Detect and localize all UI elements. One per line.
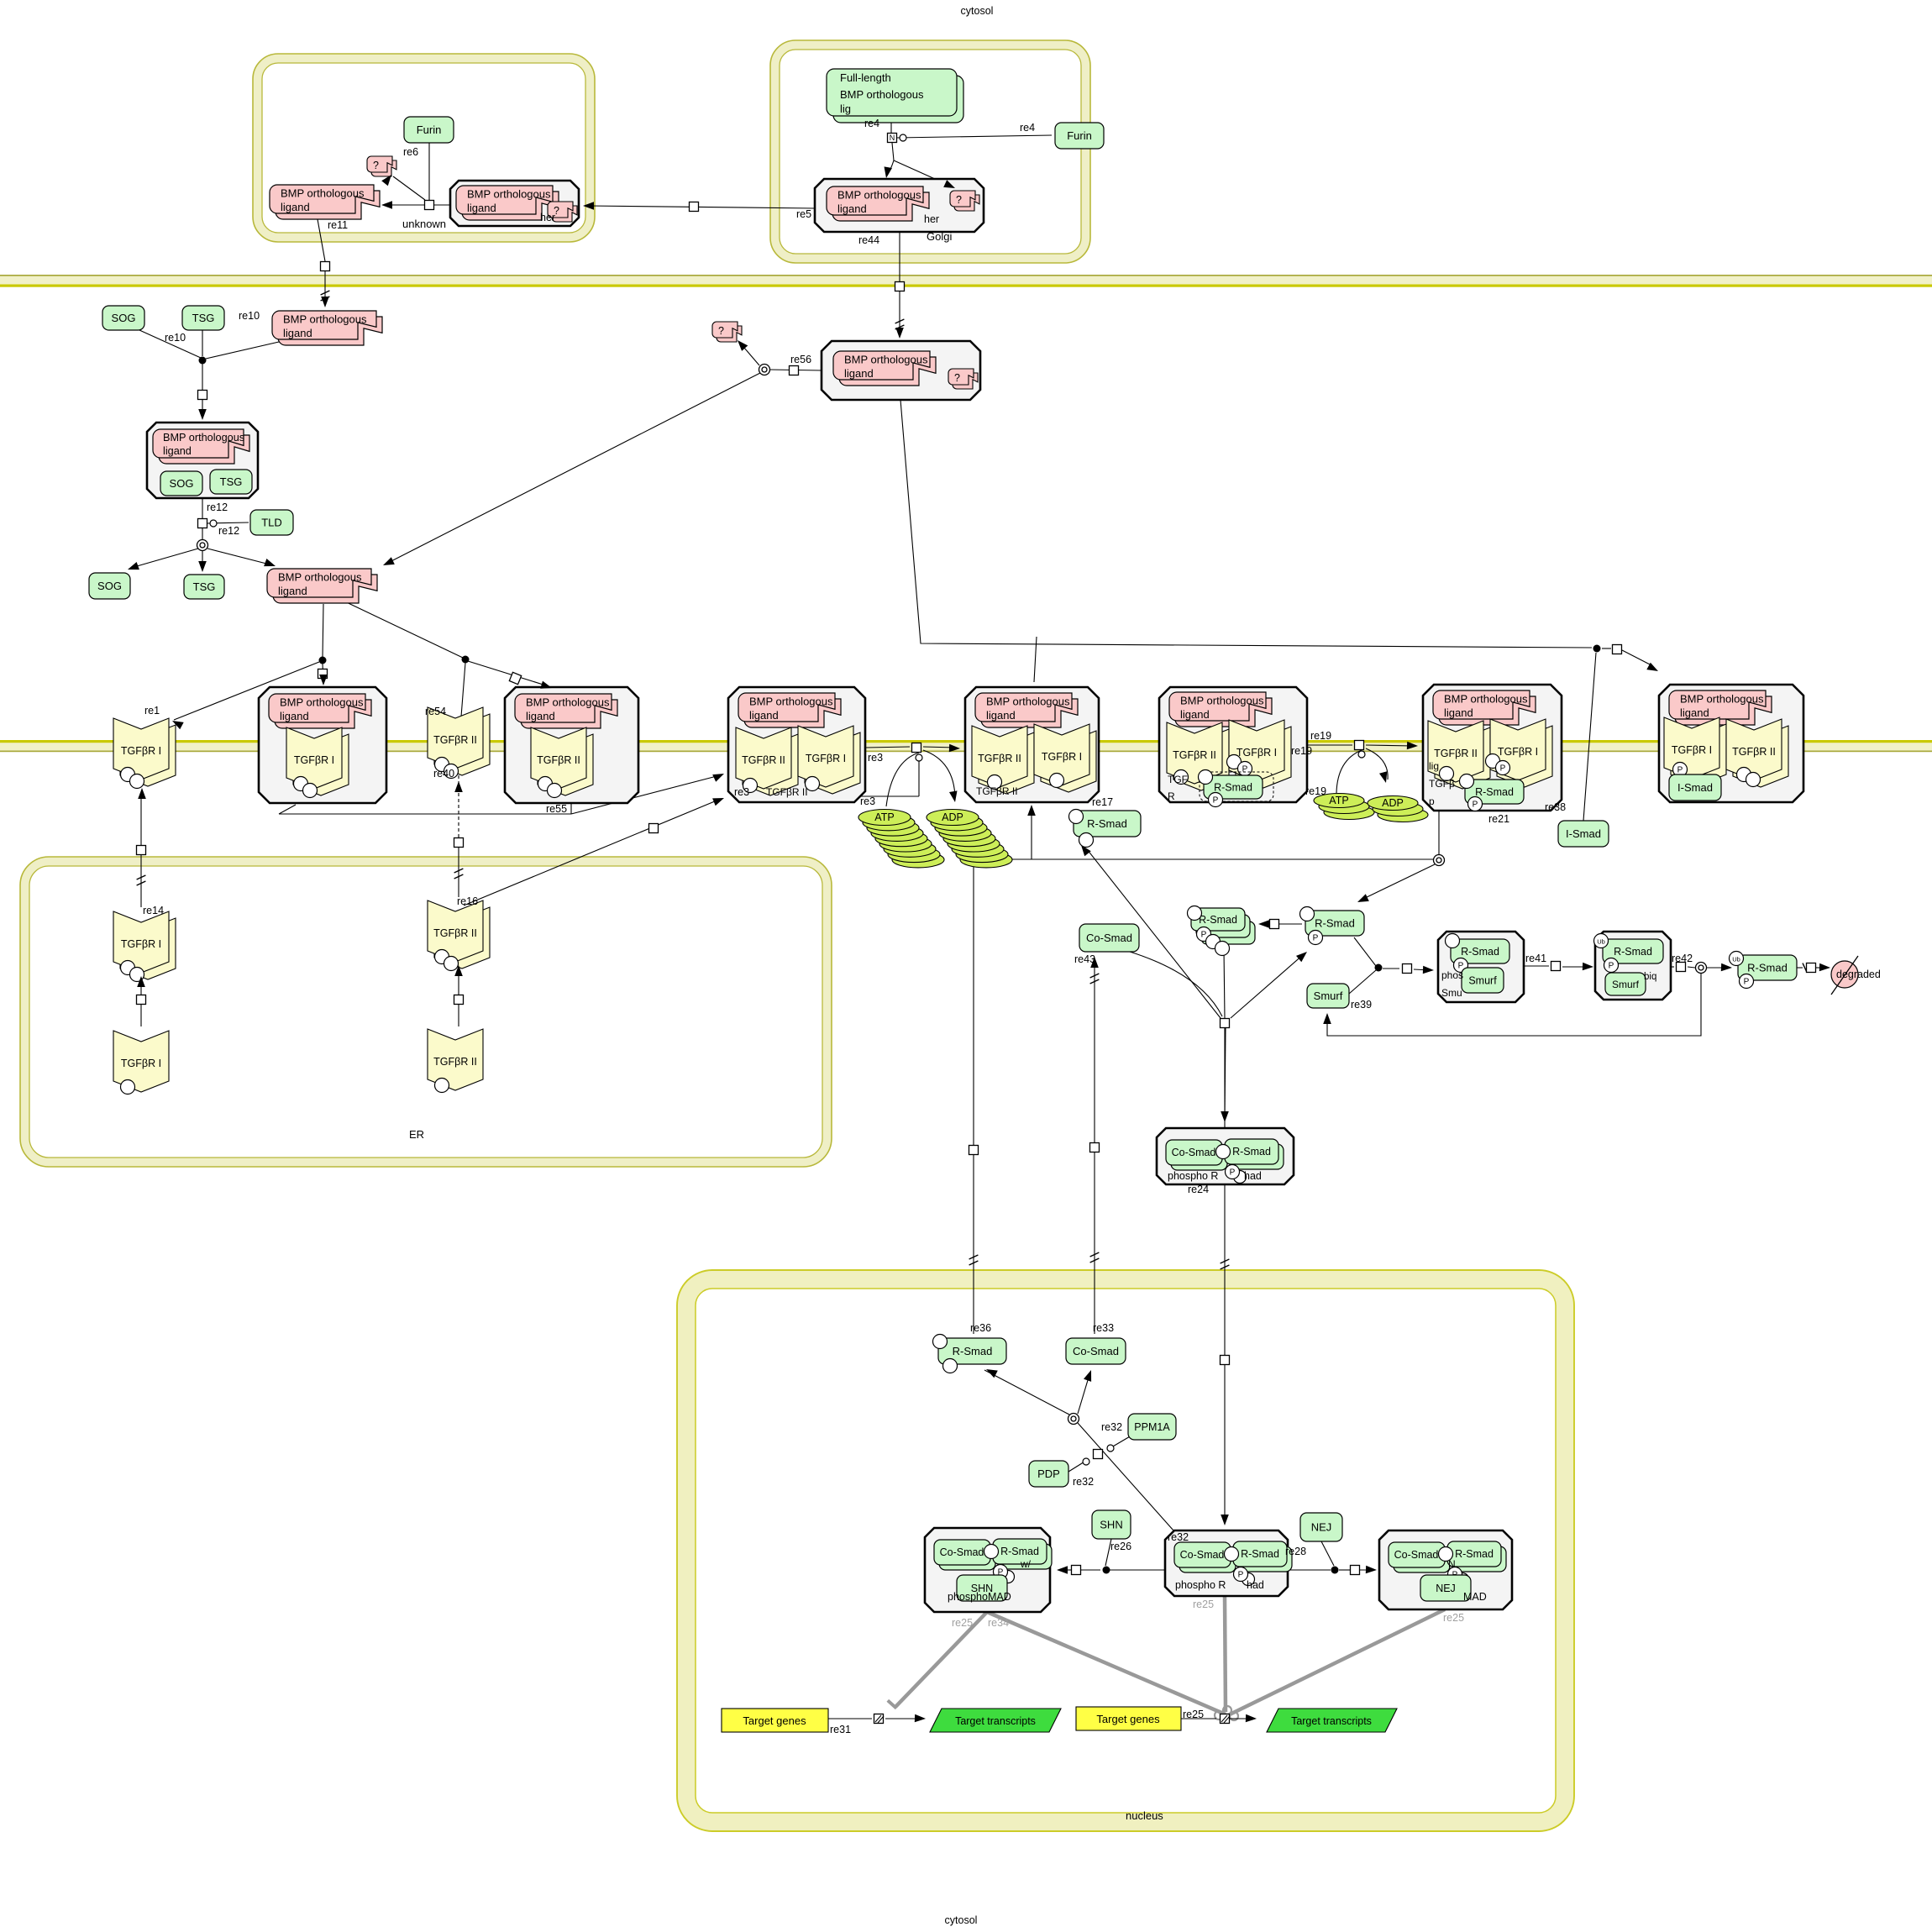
svg-text:BMP orthologous: BMP orthologous bbox=[526, 696, 610, 709]
svg-text:R-Smad: R-Smad bbox=[1315, 917, 1355, 930]
svg-text:TGFβR I: TGFβR I bbox=[806, 753, 846, 764]
svg-text:TGFβR I: TGFβR I bbox=[1672, 744, 1712, 756]
svg-text:re19: re19 bbox=[1291, 745, 1312, 757]
svg-text:PDP: PDP bbox=[1037, 1467, 1060, 1480]
svg-text:Smurf: Smurf bbox=[1468, 975, 1497, 987]
svg-text:TGFβR II: TGFβR II bbox=[742, 754, 785, 766]
svg-text:BMP orthologous: BMP orthologous bbox=[467, 188, 551, 201]
svg-text:ER: ER bbox=[409, 1128, 424, 1141]
svg-text:P: P bbox=[1313, 933, 1319, 942]
svg-text:re3: re3 bbox=[868, 752, 883, 764]
svg-text:nucleus: nucleus bbox=[1126, 1809, 1163, 1822]
svg-text:re42: re42 bbox=[1672, 953, 1693, 964]
svg-text:re56: re56 bbox=[790, 354, 811, 365]
svg-text:re25: re25 bbox=[952, 1617, 973, 1629]
svg-text:P: P bbox=[1238, 1570, 1244, 1579]
svg-text:R-Smad: R-Smad bbox=[1199, 914, 1237, 926]
svg-text:re54: re54 bbox=[425, 706, 446, 717]
svg-text:TGFβR I: TGFβR I bbox=[1498, 746, 1538, 758]
svg-text:R: R bbox=[1168, 790, 1175, 802]
svg-text:phosphoMAD: phosphoMAD bbox=[948, 1591, 1011, 1603]
svg-text:re16: re16 bbox=[457, 895, 478, 907]
svg-text:re14: re14 bbox=[143, 905, 164, 916]
svg-text:Co-Smad: Co-Smad bbox=[1180, 1549, 1225, 1561]
svg-text:her: her bbox=[540, 212, 555, 223]
svg-text:R-Smad: R-Smad bbox=[1455, 1548, 1494, 1560]
svg-text:phospho R: phospho R bbox=[1175, 1579, 1226, 1591]
svg-text:N: N bbox=[1448, 1558, 1456, 1570]
svg-text:P: P bbox=[1201, 930, 1207, 939]
svg-text:Smu: Smu bbox=[1441, 987, 1462, 999]
svg-text:TLD: TLD bbox=[261, 517, 282, 529]
svg-text:BMP orthologous: BMP orthologous bbox=[1180, 695, 1264, 707]
svg-text:TGFβR II: TGFβR II bbox=[433, 734, 477, 746]
svg-text:ligand: ligand bbox=[844, 367, 874, 380]
svg-text:her: her bbox=[924, 213, 939, 225]
svg-text:?: ? bbox=[718, 325, 724, 337]
svg-text:ligand: ligand bbox=[281, 201, 310, 213]
svg-text:re5: re5 bbox=[796, 208, 811, 220]
svg-text:TGFβR II: TGFβR II bbox=[766, 786, 808, 798]
svg-text:TGFβR II: TGFβR II bbox=[976, 785, 1018, 797]
svg-text:re10: re10 bbox=[165, 332, 186, 344]
svg-text:TGFβR II: TGFβR II bbox=[1173, 749, 1216, 761]
svg-text:TGFβ: TGFβ bbox=[1429, 778, 1455, 790]
svg-text:BMP orthologous: BMP orthologous bbox=[278, 571, 362, 584]
svg-text:re44: re44 bbox=[858, 234, 879, 246]
svg-text:re39: re39 bbox=[1351, 999, 1372, 1011]
svg-text:ligand: ligand bbox=[280, 710, 309, 722]
svg-text:P: P bbox=[1677, 765, 1683, 774]
svg-text:Full-length: Full-length bbox=[840, 71, 891, 84]
svg-text:ADP: ADP bbox=[1382, 797, 1404, 809]
svg-text:Target transcripts: Target transcripts bbox=[1291, 1715, 1372, 1727]
svg-text:BMP orthologous: BMP orthologous bbox=[280, 696, 364, 709]
svg-text:Co-Smad: Co-Smad bbox=[1086, 932, 1132, 944]
svg-text:cytosol: cytosol bbox=[961, 5, 994, 17]
svg-text:BMP orthologous: BMP orthologous bbox=[844, 354, 928, 366]
svg-text:re31: re31 bbox=[830, 1724, 851, 1735]
svg-text:?: ? bbox=[954, 372, 960, 384]
svg-text:NEJ: NEJ bbox=[1311, 1521, 1332, 1534]
svg-text:R-Smad: R-Smad bbox=[953, 1345, 993, 1357]
svg-text:BMP orthologous: BMP orthologous bbox=[1444, 693, 1528, 706]
svg-text:BMP orthologous: BMP orthologous bbox=[281, 187, 365, 200]
svg-text:TSG: TSG bbox=[192, 312, 215, 324]
svg-text:re6: re6 bbox=[403, 146, 418, 158]
svg-text:re25: re25 bbox=[1183, 1709, 1204, 1720]
svg-text:re24: re24 bbox=[1188, 1184, 1209, 1195]
svg-text:unknown: unknown bbox=[402, 218, 446, 230]
svg-text:P: P bbox=[1213, 795, 1219, 805]
svg-text:Co-Smad: Co-Smad bbox=[1073, 1345, 1119, 1357]
svg-text:re12: re12 bbox=[218, 525, 239, 537]
svg-text:TGFβR II: TGFβR II bbox=[433, 1056, 477, 1068]
svg-text:re11: re11 bbox=[328, 219, 348, 231]
svg-text:re43: re43 bbox=[1074, 953, 1095, 965]
svg-text:SHN: SHN bbox=[1100, 1519, 1122, 1531]
svg-text:re32: re32 bbox=[1073, 1476, 1094, 1488]
svg-text:BMP orthologous: BMP orthologous bbox=[837, 189, 921, 202]
svg-text:ligand: ligand bbox=[283, 327, 312, 339]
svg-text:had: had bbox=[1247, 1579, 1264, 1591]
svg-text:re17: re17 bbox=[1092, 796, 1113, 808]
svg-text:degraded: degraded bbox=[1836, 969, 1881, 980]
svg-text:re25: re25 bbox=[1443, 1612, 1464, 1624]
svg-text:TGFβR II: TGFβR II bbox=[1732, 746, 1776, 758]
svg-text:Smurf: Smurf bbox=[1314, 990, 1343, 1002]
svg-text:R-Smad: R-Smad bbox=[1232, 1146, 1271, 1158]
svg-text:TSG: TSG bbox=[220, 475, 243, 488]
svg-text:BMP orthologous: BMP orthologous bbox=[163, 432, 244, 444]
svg-text:re3: re3 bbox=[734, 786, 749, 798]
svg-text:Target genes: Target genes bbox=[743, 1714, 806, 1727]
svg-text:re4: re4 bbox=[864, 118, 879, 129]
svg-text:ligand: ligand bbox=[278, 585, 307, 597]
svg-text:R-Smad: R-Smad bbox=[1747, 962, 1788, 974]
svg-text:R-Smad: R-Smad bbox=[1461, 946, 1499, 958]
svg-text:Smurf: Smurf bbox=[1612, 979, 1640, 990]
svg-text:re41: re41 bbox=[1525, 953, 1546, 964]
svg-text:Golgi: Golgi bbox=[927, 230, 952, 243]
svg-text:SOG: SOG bbox=[97, 580, 122, 592]
svg-text:TGFβR I: TGFβR I bbox=[1042, 751, 1082, 763]
svg-text:P: P bbox=[1744, 977, 1750, 986]
svg-text:SOG: SOG bbox=[170, 477, 194, 490]
svg-text:ATP: ATP bbox=[1329, 795, 1348, 806]
svg-text:re19: re19 bbox=[1310, 730, 1331, 742]
svg-text:TGFβR I: TGFβR I bbox=[121, 745, 161, 757]
svg-text:Target transcripts: Target transcripts bbox=[955, 1715, 1036, 1727]
svg-text:P: P bbox=[1242, 764, 1248, 774]
svg-text:TGFβR II: TGFβR II bbox=[537, 754, 580, 766]
svg-text:re21: re21 bbox=[1488, 813, 1509, 825]
svg-text:TGFβR I: TGFβR I bbox=[1236, 747, 1277, 759]
svg-text:R-Smad: R-Smad bbox=[1000, 1546, 1039, 1557]
svg-text:re33: re33 bbox=[1093, 1322, 1114, 1334]
svg-text:TGF: TGF bbox=[1168, 774, 1188, 785]
svg-text:ATP: ATP bbox=[874, 811, 894, 823]
svg-text:P: P bbox=[1500, 764, 1506, 773]
svg-text:biq: biq bbox=[1644, 972, 1656, 982]
svg-text:P: P bbox=[1473, 800, 1478, 809]
svg-text:P: P bbox=[1609, 961, 1614, 970]
svg-text:TGFβR I: TGFβR I bbox=[294, 754, 334, 766]
svg-text:TGFβR I: TGFβR I bbox=[121, 1058, 161, 1069]
svg-text:re32: re32 bbox=[1168, 1531, 1189, 1543]
svg-text:re4: re4 bbox=[1020, 122, 1035, 134]
svg-text:Target genes: Target genes bbox=[1096, 1713, 1160, 1725]
svg-text:re3: re3 bbox=[860, 795, 875, 807]
svg-text:?: ? bbox=[373, 160, 379, 171]
svg-text:BMP orthologous: BMP orthologous bbox=[749, 696, 833, 708]
svg-text:BMP orthologous: BMP orthologous bbox=[1680, 693, 1764, 706]
svg-text:re55: re55 bbox=[546, 803, 567, 815]
svg-text:ligand: ligand bbox=[1180, 708, 1210, 721]
svg-text:re19: re19 bbox=[1305, 785, 1326, 797]
svg-text:?: ? bbox=[956, 194, 962, 206]
svg-text:re12: re12 bbox=[207, 501, 228, 513]
svg-text:R-Smad: R-Smad bbox=[1241, 1548, 1279, 1560]
svg-text:cytosol: cytosol bbox=[945, 1914, 978, 1926]
svg-text:ligand: ligand bbox=[467, 202, 496, 214]
svg-text:R-Smad: R-Smad bbox=[1475, 786, 1514, 798]
svg-text:NEJ: NEJ bbox=[1436, 1583, 1456, 1594]
svg-text:re38: re38 bbox=[1545, 801, 1566, 813]
svg-text:R-Smad: R-Smad bbox=[1214, 782, 1252, 794]
svg-text:phos: phos bbox=[1441, 969, 1463, 981]
svg-text:Co-Smad: Co-Smad bbox=[1394, 1549, 1439, 1561]
svg-text:ligand: ligand bbox=[986, 709, 1016, 722]
svg-text:Furin: Furin bbox=[1067, 129, 1092, 142]
svg-text:TGFβR I: TGFβR I bbox=[121, 938, 161, 950]
svg-text:had: had bbox=[1244, 1170, 1262, 1182]
svg-text:re26: re26 bbox=[1110, 1541, 1131, 1552]
svg-text:re28: re28 bbox=[1285, 1546, 1306, 1557]
svg-text:ligand: ligand bbox=[1444, 706, 1473, 719]
svg-text:I-Smad: I-Smad bbox=[1566, 827, 1601, 840]
svg-text:MAD: MAD bbox=[1463, 1591, 1487, 1603]
svg-text:Co-Smad: Co-Smad bbox=[1172, 1147, 1216, 1158]
svg-text:Co-Smad: Co-Smad bbox=[940, 1546, 984, 1558]
svg-text:ligand: ligand bbox=[526, 710, 555, 722]
svg-text:BMP orthologous: BMP orthologous bbox=[283, 313, 367, 326]
svg-text:re25: re25 bbox=[1193, 1599, 1214, 1610]
svg-text:TGFβR II: TGFβR II bbox=[433, 927, 477, 939]
svg-text:lig: lig bbox=[840, 102, 851, 115]
svg-text:ADP: ADP bbox=[942, 811, 963, 823]
svg-text:SOG: SOG bbox=[112, 312, 136, 324]
svg-text:BMP orthologous: BMP orthologous bbox=[986, 696, 1070, 708]
svg-text:TSG: TSG bbox=[193, 580, 216, 593]
svg-text:ligand: ligand bbox=[163, 445, 192, 457]
svg-text:w/: w/ bbox=[1020, 1558, 1032, 1570]
svg-text:phospho R: phospho R bbox=[1168, 1170, 1218, 1182]
svg-text:re36: re36 bbox=[970, 1322, 991, 1334]
svg-text:re34: re34 bbox=[988, 1617, 1009, 1629]
svg-text:TGFβR II: TGFβR II bbox=[1434, 748, 1478, 759]
svg-text:P: P bbox=[1230, 1168, 1236, 1177]
svg-text:ligand: ligand bbox=[1680, 706, 1709, 719]
svg-text:lig: lig bbox=[1429, 760, 1439, 772]
svg-text:ligand: ligand bbox=[749, 709, 779, 722]
svg-text:Ub: Ub bbox=[1597, 937, 1605, 945]
svg-text:ligand: ligand bbox=[837, 202, 867, 215]
svg-text:BMP orthologous: BMP orthologous bbox=[840, 88, 924, 101]
svg-text:TGFβR II: TGFβR II bbox=[978, 753, 1021, 764]
svg-text:I-Smad: I-Smad bbox=[1677, 781, 1713, 794]
svg-text:re1: re1 bbox=[144, 705, 160, 717]
svg-text:re10: re10 bbox=[239, 310, 260, 322]
svg-text:R-Smad: R-Smad bbox=[1087, 817, 1127, 830]
svg-text:Ub: Ub bbox=[1732, 955, 1740, 963]
svg-text:p: p bbox=[1429, 795, 1435, 807]
svg-text:Furin: Furin bbox=[417, 123, 442, 136]
svg-text:R-Smad: R-Smad bbox=[1614, 946, 1652, 958]
svg-text:PPM1A: PPM1A bbox=[1134, 1421, 1170, 1433]
svg-text:re40: re40 bbox=[433, 768, 454, 780]
svg-text:re32: re32 bbox=[1101, 1421, 1122, 1433]
svg-text:N: N bbox=[890, 134, 895, 142]
